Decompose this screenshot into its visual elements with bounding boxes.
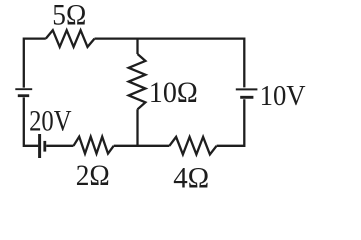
battery B1 20V lower cell short plate [43, 141, 46, 152]
battery B1 20V upper cell short plate [18, 94, 29, 97]
wire middle branch lower stub [136, 109, 138, 146]
svg-text:2Ω: 2Ω [76, 159, 110, 192]
wire top (5-ohm to top-right corner, down to 10V battery) [95, 39, 245, 88]
wire bottom-right corner (4-ohm up to 10V battery) [217, 99, 245, 146]
label 2 ohm [76, 159, 110, 192]
label 20V [29, 104, 72, 137]
wire middle branch upper stub [136, 39, 138, 54]
svg-text:4Ω: 4Ω [173, 162, 209, 194]
battery B1 20V lower cell long plate [38, 134, 41, 158]
resistor R4 4 ohm [169, 137, 216, 155]
wire left branch lower (battery to bottom-left corner) [24, 97, 39, 145]
resistor R2 10 ohm [129, 54, 146, 109]
wire bottom (battery to 2-ohm) [46, 145, 73, 147]
label 5 ohm [52, 0, 86, 32]
label 10V [260, 80, 306, 112]
battery B2 10V short plate [240, 96, 253, 99]
battery B2 10V long plate [236, 88, 258, 90]
resistor R1 5 ohm [46, 30, 95, 47]
label 10 ohm [149, 76, 198, 109]
svg-text:5Ω: 5Ω [52, 0, 86, 32]
battery B1 20V upper cell long plate [15, 88, 32, 90]
wire top-left corner (left branch upper to 5-ohm) [24, 39, 46, 88]
svg-text:10V: 10V [260, 80, 306, 112]
wire bottom (2-ohm past middle junction to 4-ohm) [114, 145, 170, 147]
svg-text:20V: 20V [29, 104, 72, 137]
label 4 ohm [173, 162, 209, 195]
resistor R3 2 ohm [74, 137, 114, 154]
svg-text:10Ω: 10Ω [149, 76, 198, 109]
